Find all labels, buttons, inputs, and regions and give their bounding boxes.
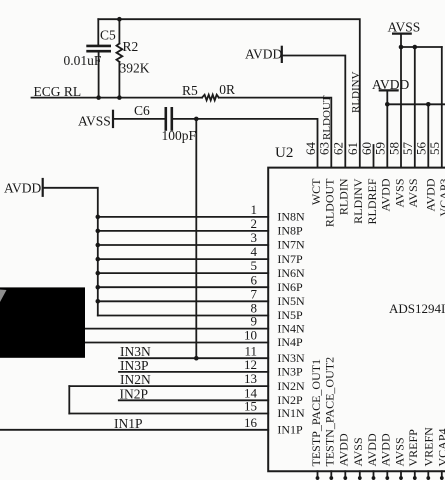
junction bottom pin stub 6 [385, 476, 389, 480]
junction bus pin 4 [96, 257, 101, 262]
resistor R2 [117, 19, 123, 97]
svg-text:AVDD: AVDD [245, 46, 283, 61]
wire pin 55 [441, 47, 443, 168]
svg-text:2: 2 [251, 216, 258, 231]
svg-text:IN2N: IN2N [120, 372, 151, 387]
wire pin 6 [98, 286, 268, 288]
junction AVSS rail pin 57 [413, 45, 418, 50]
junction AVSS rail pin 58 [399, 45, 404, 50]
svg-text:IN5N: IN5N [277, 294, 305, 308]
svg-text:AVDD: AVDD [379, 178, 393, 211]
top pin names (rotated) [309, 178, 445, 227]
svg-text:9: 9 [251, 314, 258, 329]
svg-text:WCT: WCT [309, 178, 323, 205]
svg-text:3: 3 [251, 230, 258, 245]
junction bottom pin stub 10 [440, 476, 444, 480]
svg-text:IN4N: IN4N [277, 321, 305, 335]
svg-text:AVDD: AVDD [365, 433, 379, 466]
gray corner triangle [0, 290, 7, 303]
pin 60 stub [373, 145, 375, 168]
svg-text:63: 63 [317, 142, 332, 155]
wire pin 4 [98, 258, 268, 260]
svg-text:AVDD: AVDD [424, 178, 438, 211]
svg-text:10: 10 [244, 328, 257, 343]
svg-text:IN1N: IN1N [277, 406, 305, 420]
svg-text:AVSS: AVSS [388, 19, 421, 34]
svg-text:IN8P: IN8P [277, 224, 303, 238]
junction bottom pin stub 3 [343, 476, 347, 480]
wire bottom pin stub 4 [359, 471, 361, 479]
junction bus pin 3 [96, 243, 101, 248]
svg-text:VREFN: VREFN [422, 427, 436, 467]
upper net labels (rotated) [321, 71, 362, 140]
bottom pin names (rotated) [309, 357, 445, 467]
svg-text:4: 4 [251, 244, 258, 259]
svg-text:IN4P: IN4P [277, 335, 303, 349]
wire pin 8 [98, 315, 268, 317]
svg-text:IN3P: IN3P [277, 365, 303, 379]
wire pin 15 IN1N [69, 413, 268, 415]
wire pin 2 [98, 230, 268, 232]
svg-text:TESTP_PACE_OUT1: TESTP_PACE_OUT1 [309, 359, 323, 467]
svg-text:16: 16 [244, 415, 258, 430]
svg-text:ECG RL: ECG RL [34, 84, 82, 99]
wire bottom pin stub 3 [344, 471, 346, 479]
svg-text:ADS1294IPA: ADS1294IPA [389, 301, 445, 316]
wire bottom pin stub 5 [373, 471, 375, 479]
svg-text:1: 1 [251, 202, 258, 217]
svg-text:12: 12 [244, 357, 257, 372]
wire top rail RLDINV net [98, 19, 360, 167]
svg-text:IN6P: IN6P [277, 280, 303, 294]
svg-text:5: 5 [251, 258, 258, 273]
svg-text:392K: 392K [120, 61, 150, 76]
op-amp U2 chip outline [268, 168, 445, 472]
wire IN2N to IN1N [68, 386, 70, 413]
capacitor C6 [166, 108, 172, 129]
wire R5 to pin 63 [219, 98, 331, 168]
wire AVDD rail [387, 103, 445, 105]
svg-text:VCAP3: VCAP3 [437, 179, 445, 217]
wire ECG RL net [32, 97, 203, 99]
junction IN3N [194, 356, 199, 361]
junction R2 at ECG RL [117, 95, 122, 100]
junction C6 net [194, 117, 199, 122]
svg-text:AVSS: AVSS [351, 437, 365, 466]
svg-text:IN7N: IN7N [277, 238, 305, 252]
svg-text:62: 62 [331, 142, 346, 155]
wire bottom pin stub 9 [427, 471, 429, 479]
svg-text:IN3N: IN3N [277, 351, 305, 365]
svg-text:C5: C5 [100, 28, 116, 43]
svg-text:AVDD: AVDD [337, 433, 351, 466]
svg-text:58: 58 [386, 142, 401, 155]
wire pin 16 IN1P [0, 429, 268, 431]
wire pin 57 [414, 47, 416, 168]
black redaction rectangle [0, 287, 85, 357]
top pin numbers (rotated) [303, 142, 442, 156]
junction bus pin 5 [96, 271, 101, 276]
junction bus pin 7 [96, 299, 101, 304]
svg-text:0.01uF: 0.01uF [64, 53, 102, 68]
junction bottom pin stub 2 [329, 476, 333, 480]
svg-text:IN1P: IN1P [277, 423, 303, 437]
junction bus pin 1 [96, 215, 101, 220]
wire pin 13 IN2N [69, 385, 268, 387]
wire AVDD mid to pin 62 [283, 56, 346, 168]
wire pin 14 IN2P [119, 399, 268, 401]
junction bottom pin stub 1 [316, 476, 320, 480]
wire pin 11 IN3N [119, 357, 268, 359]
svg-text:R5: R5 [182, 83, 198, 98]
junction AVDD rail pin 59 [385, 102, 390, 107]
wire AVDD left bus [44, 188, 98, 316]
junction bus pin 2 [96, 229, 101, 234]
wire AVSS rail [401, 46, 442, 48]
junction bottom pin stub 8 [413, 476, 417, 480]
power symbol AVDD right [380, 90, 398, 104]
wire pin 3 [98, 244, 268, 246]
wire pin 10 [85, 342, 268, 344]
wire bottom pin stub 2 [330, 471, 332, 479]
wire C6 to pin 64 [173, 119, 318, 168]
svg-text:AVDD: AVDD [4, 180, 42, 195]
wire pin 5 [98, 272, 268, 274]
svg-text:IN1P: IN1P [114, 416, 143, 431]
wire bottom pin stub 8 [414, 471, 416, 479]
svg-text:IN2N: IN2N [277, 379, 305, 393]
svg-text:IN2P: IN2P [277, 393, 303, 407]
svg-text:AVDD: AVDD [379, 433, 393, 466]
wire pin 9 [85, 328, 268, 330]
wire bottom pin stub 7 [400, 471, 402, 479]
svg-text:15: 15 [244, 399, 257, 414]
svg-text:IN5P: IN5P [277, 308, 303, 322]
junction C5 at ECG RL [96, 95, 101, 100]
svg-text:RLDIN: RLDIN [337, 178, 351, 215]
wire AVSS tick to C6 [114, 118, 165, 120]
svg-text:RLDINV: RLDINV [350, 71, 362, 113]
svg-text:55: 55 [427, 142, 442, 155]
wire pin 56 [427, 104, 429, 167]
svg-text:RLDINV: RLDINV [351, 178, 365, 224]
svg-text:RLDREF: RLDREF [365, 178, 379, 224]
left pin names [277, 210, 305, 437]
wire bottom pin stub 10 [441, 471, 443, 479]
svg-text:RLDOUT: RLDOUT [321, 95, 333, 140]
svg-text:VREFP: VREFP [406, 429, 420, 467]
wire pin 58 [400, 47, 402, 168]
wire pin 59 [386, 104, 388, 167]
svg-text:IN2P: IN2P [120, 386, 149, 401]
power tick AVSS left [112, 111, 114, 127]
svg-text:IN7P: IN7P [277, 252, 303, 266]
wire pin 12 IN3P [119, 371, 268, 373]
wire bottom pin stub 6 [386, 471, 388, 479]
svg-text:U2: U2 [275, 145, 293, 161]
junction AVDD rail pin 56 [426, 102, 431, 107]
junction bus pin 6 [96, 285, 101, 290]
left pin numbers [244, 202, 258, 430]
svg-text:13: 13 [244, 371, 257, 386]
svg-text:AVSS: AVSS [406, 179, 420, 208]
svg-text:R2: R2 [123, 39, 139, 54]
junction bottom pin stub 7 [399, 476, 403, 480]
svg-text:IN8N: IN8N [277, 210, 305, 224]
power tick AVDD mid [281, 47, 283, 62]
junction bottom pin stub 5 [372, 476, 376, 480]
svg-text:VCAP4: VCAP4 [435, 428, 445, 466]
svg-text:IN6N: IN6N [277, 266, 305, 280]
junction R2 top [117, 17, 122, 22]
svg-text:RLDOUT: RLDOUT [323, 178, 337, 227]
capacitor C5 [88, 19, 110, 97]
svg-text:7: 7 [251, 286, 258, 301]
svg-text:AVSS: AVSS [392, 437, 406, 466]
junction bottom pin stub 9 [426, 476, 430, 480]
wire bottom pin stub 1 [317, 471, 319, 479]
svg-text:AVSS: AVSS [392, 179, 406, 208]
power symbol AVSS right [393, 34, 411, 47]
svg-text:60: 60 [359, 142, 374, 155]
junction bottom pin stub 4 [358, 476, 362, 480]
svg-text:AVDD: AVDD [372, 77, 410, 92]
svg-text:C6: C6 [134, 103, 150, 118]
svg-text:64: 64 [303, 142, 318, 156]
power tick AVDD left [42, 179, 44, 196]
svg-text:100pF: 100pF [162, 128, 197, 143]
svg-text:TESTN_PACE_OUT2: TESTN_PACE_OUT2 [323, 357, 337, 467]
wire pin 7 [98, 300, 268, 302]
wire C6 junction down to IN3N [195, 119, 197, 358]
svg-text:IN3P: IN3P [120, 358, 149, 373]
svg-text:6: 6 [251, 272, 258, 287]
bottom pin stubs [318, 471, 442, 479]
wire pin 1 [98, 216, 268, 218]
svg-text:AVSS: AVSS [78, 114, 111, 129]
resistor R5 [202, 95, 219, 101]
svg-text:0R: 0R [219, 82, 235, 97]
